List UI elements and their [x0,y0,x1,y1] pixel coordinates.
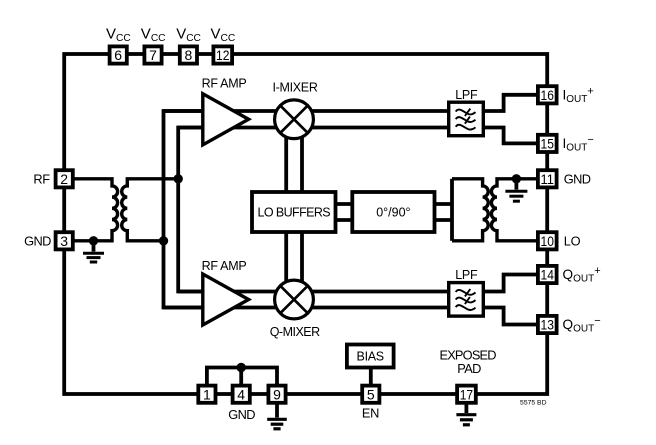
wire T2 coupling bar [450,179,454,241]
svg-text:13: 13 [541,317,555,333]
pin 4 [233,386,250,403]
svg-text:11: 11 [541,171,555,187]
svg-text:I-MIXER: I-MIXER [272,80,317,94]
svg-text:15: 15 [541,136,555,152]
wire ground bracket pins 1-4-9 [207,368,277,388]
transformer T1 secondary [122,179,178,241]
mixer I X [280,106,307,133]
svg-text:LPF: LPF [455,268,478,282]
mixer Q circle [275,280,314,319]
svg-text:5575 BD: 5575 BD [520,400,547,407]
svg-text:2: 2 [60,171,68,187]
transformer T2 secondary [491,179,547,241]
transformer T2 primary [452,179,488,241]
mixer Q X [280,286,307,313]
svg-text:GND: GND [24,234,51,249]
svg-text:4: 4 [237,386,245,402]
wire LO buffers to 0/90 bottom [336,218,353,222]
wire LO buffers to Q-mixer left [284,232,288,300]
node junction dot secondary top [174,174,183,183]
svg-text:14: 14 [541,267,555,283]
node junction dot secondary bottom [159,236,168,245]
pin 9 [268,386,285,403]
pin 14 [538,266,557,283]
svg-text:9: 9 [273,386,281,402]
svg-text:BIAS: BIAS [357,350,384,364]
box 0/90 phase shifter [352,192,434,232]
svg-text:RF AMP: RF AMP [202,76,247,90]
svg-text:LO BUFFERS: LO BUFFERS [258,205,331,219]
pin 16 [538,86,557,103]
wire Q LPF to pin 14 [483,275,536,292]
svg-text:3: 3 [60,233,68,249]
node junction dot T2 ground [512,174,521,183]
ground at pin 9 [267,403,287,429]
svg-text:RF: RF [33,172,50,187]
filter LPF I box [449,102,484,136]
svg-text:Q-MIXER: Q-MIXER [270,325,320,339]
svg-text:GND: GND [228,407,255,422]
wire I-path top rail [164,109,449,113]
wire 0/90 to T2 bottom [435,218,453,222]
svg-text:EN: EN [362,406,379,421]
filter LPF Q box [449,283,484,317]
wire Q LPF to pin 13 [483,308,536,325]
wire LO buffers to I-mixer left [284,119,288,192]
svg-text:RF AMP: RF AMP [202,259,247,273]
op-amp RF AMP I [203,94,249,145]
svg-text:12: 12 [216,47,230,63]
wire I LPF to pin 15 [483,128,536,144]
pin 12 [213,46,232,63]
pin 8 [180,46,197,63]
box BIAS [347,345,394,368]
wire Q-path bottom rail [164,306,449,310]
pin 15 [538,135,557,152]
svg-text:7: 7 [149,47,157,63]
pin 1 [198,386,215,403]
pin 13 [538,316,557,333]
transformer T1 primary [64,179,117,241]
pin 3 [56,232,73,249]
pin 5 [362,386,379,403]
svg-text:0°/90°: 0°/90° [376,205,410,219]
wire LO buffers to I-mixer right [300,119,304,192]
svg-text:LO: LO [564,233,581,248]
svg-text:6: 6 [114,47,122,63]
svg-text:16: 16 [541,87,555,103]
svg-text:8: 8 [185,47,193,63]
wire outer loop bus [64,54,547,394]
ground at T2 secondary [505,179,527,201]
svg-text:10: 10 [541,233,555,249]
pin 17 [457,386,476,403]
svg-text:GND: GND [564,172,591,187]
pin 7 [144,46,161,63]
wire LO buffers to Q-mixer right [300,232,304,300]
pin 2 [56,170,73,187]
svg-text:5: 5 [367,386,375,402]
box LO BUFFERS [252,192,336,232]
wire LO buffers to 0/90 top [336,202,353,206]
mixer I circle [275,100,314,139]
pin 6 [110,46,127,63]
svg-text:17: 17 [460,386,474,402]
svg-text:LPF: LPF [455,88,478,102]
wire RF feed line B [178,128,202,292]
op-amp RF AMP Q [203,274,249,325]
svg-text:1: 1 [203,386,211,402]
wire Q-path top rail [178,290,449,294]
wire 0/90 to T2 top [435,202,453,206]
node junction dot T1 ground [89,236,98,245]
svg-text:PAD: PAD [457,361,481,376]
ground at exposed pad [456,403,476,425]
pin 10 [538,232,557,249]
wire pin 4 stub [239,368,243,387]
pin 11 [538,170,557,187]
wire RF feed line A [164,111,203,308]
wire I-path bottom rail [178,126,449,130]
wire bias stub [369,367,373,385]
wire I LPF to pin 16 [483,95,536,111]
node junction dot pin 4 bracket [237,363,246,372]
ground at RF input [83,241,104,262]
